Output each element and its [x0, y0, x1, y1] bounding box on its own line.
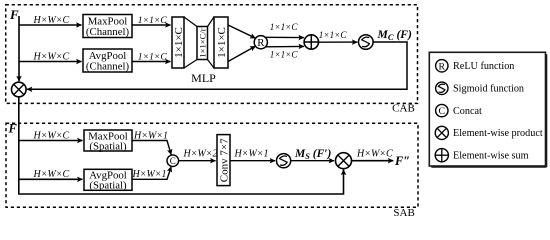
svg-text:F: F: [9, 7, 19, 22]
wire AvgPool(Spatial) to concat: [132, 167, 171, 180]
svg-text:H×W×C: H×W×C: [356, 149, 393, 160]
label CAB: [392, 103, 415, 115]
svg-text:Element-wise product: Element-wise product: [453, 128, 543, 139]
svg-text:H×W×C: H×W×C: [33, 15, 70, 26]
wire F input vertical: [18, 16, 20, 81]
wire F to MaxPool(Channel): [19, 24, 82, 26]
svg-text:1×1×C: 1×1×C: [173, 27, 185, 58]
block MaxPool (Channel): [83, 15, 132, 39]
block AvgPool (Channel): [83, 49, 132, 73]
node F prime: [8, 122, 21, 136]
wire product down to SAB and bottom feedback: [19, 97, 344, 194]
wire R to plus bottom: [266, 45, 304, 47]
label HxWxC bottom CAB: [33, 51, 70, 62]
label HxWxC out: [356, 149, 393, 160]
SAB dashed box: [6, 123, 418, 207]
CAB dashed box: [6, 5, 418, 104]
op element-wise product circle CAB: [11, 82, 26, 97]
svg-text:F″: F″: [394, 154, 410, 168]
svg-text:H×W×C: H×W×C: [33, 169, 70, 180]
wire sum to sigmoid: [319, 41, 358, 43]
svg-text:1×1×C: 1×1×C: [216, 27, 228, 58]
block AvgPool (Spatial): [84, 169, 132, 191]
op element-wise sum circle CAB: [304, 35, 318, 49]
label HxWx1 conv out: [234, 149, 269, 160]
svg-text:H×W×1: H×W×1: [132, 169, 167, 180]
svg-text:1×1×C: 1×1×C: [319, 30, 348, 40]
node F: [9, 7, 19, 22]
legend product: [435, 126, 543, 139]
wire F' to MaxPool(Spatial): [19, 140, 83, 142]
wire R to plus top: [266, 36, 304, 38]
wire concat to conv: [179, 160, 216, 162]
MLP layer 1 box: [172, 17, 185, 68]
svg-text:R: R: [439, 61, 446, 72]
MLP trapezoid wires right: [208, 17, 215, 68]
label HxWx1 AvgPool(Spatial) out: [132, 169, 167, 180]
svg-text:R: R: [257, 37, 265, 49]
label HxWxC top CAB: [33, 15, 70, 26]
node F'': [394, 154, 410, 168]
label HxWxC bottom SAB: [33, 169, 70, 180]
op element-wise product circle SAB: [336, 153, 352, 169]
svg-text:Conv 7×7: Conv 7×7: [218, 138, 230, 182]
svg-text:SAB: SAB: [393, 207, 414, 219]
wire MaxPool to MLP: [132, 24, 171, 26]
label MS(F'): [294, 148, 331, 161]
wire MaxPool(Spatial) to concat: [132, 141, 171, 155]
label HxWx1 MaxPool(Spatial) out: [133, 130, 168, 141]
svg-text:1×1×C: 1×1×C: [138, 51, 168, 62]
label MC(F): [377, 28, 413, 42]
svg-text:C: C: [439, 106, 446, 117]
wire sigmoid to product SAB: [291, 160, 334, 162]
svg-text:CAB: CAB: [392, 103, 415, 115]
MLP trapezoid wires left: [184, 17, 197, 68]
wire conv to sigmoid SAB: [230, 160, 275, 162]
svg-text:H×W×2: H×W×2: [183, 149, 218, 160]
label 1x1xC sum-sigmoid: [319, 30, 348, 40]
wire sigmoid feedback to product CAB: [27, 42, 407, 89]
op concat circle: [167, 155, 179, 167]
svg-text:MLP: MLP: [191, 71, 216, 85]
svg-text:(Channel): (Channel): [86, 61, 130, 73]
svg-text:1×1×C/r: 1×1×C/r: [197, 28, 207, 57]
legend R ReLU: [436, 60, 515, 73]
MLP layer 2 box: [197, 27, 208, 60]
wire F' to AvgPool(Spatial): [19, 178, 83, 180]
svg-text:(Channel): (Channel): [86, 26, 130, 38]
svg-text:H×W×1: H×W×1: [234, 149, 269, 160]
label HxWxC top SAB: [33, 130, 70, 141]
svg-text:(Spatial): (Spatial): [89, 180, 127, 192]
svg-text:F′: F′: [8, 122, 21, 136]
legend C Concat: [436, 104, 482, 117]
svg-text:MC (F): MC (F): [377, 28, 413, 42]
svg-text:H×W×C: H×W×C: [33, 51, 70, 62]
wire MLP bottom to R: [228, 46, 256, 61]
wire F to AvgPool(Channel): [19, 61, 82, 63]
label 1x1xC above R-plus: [270, 22, 299, 32]
svg-text:H×W×C: H×W×C: [33, 130, 70, 141]
svg-text:Element-wise sum: Element-wise sum: [453, 151, 529, 162]
op R ReLU circle: [254, 36, 267, 49]
svg-text:Sigmoid function: Sigmoid function: [453, 84, 524, 95]
svg-text:Concat: Concat: [453, 106, 482, 117]
block Conv 7x7: [217, 135, 230, 186]
MLP layer 3 box: [214, 17, 228, 68]
wire MLP top to R: [228, 25, 256, 38]
label 1x1xC below R-plus: [270, 49, 299, 59]
legend S Sigmoid: [436, 82, 524, 95]
svg-text:H×W×1: H×W×1: [133, 130, 168, 141]
svg-text:1×1×C: 1×1×C: [270, 49, 299, 59]
wire product to F'': [352, 160, 394, 162]
wire AvgPool to MLP: [132, 61, 171, 63]
svg-text:ReLU function: ReLU function: [453, 61, 514, 72]
block MaxPool (Spatial): [84, 130, 132, 153]
label 1x1xC MaxPool out: [138, 15, 168, 26]
op sigmoid circle CAB: [359, 35, 374, 50]
label HxWx2: [183, 149, 218, 160]
svg-text:1×1×C: 1×1×C: [270, 22, 299, 32]
svg-text:(Spatial): (Spatial): [89, 141, 127, 153]
label SAB: [393, 207, 414, 219]
svg-text:1×1×C: 1×1×C: [138, 15, 168, 26]
label 1x1xC AvgPool out: [138, 51, 168, 62]
legend sum: [435, 149, 528, 162]
legend box: [429, 52, 546, 167]
label MLP: [191, 71, 216, 85]
svg-text:MS (F′): MS (F′): [294, 148, 331, 161]
op sigmoid circle SAB: [277, 154, 291, 168]
svg-text:C: C: [170, 156, 176, 166]
